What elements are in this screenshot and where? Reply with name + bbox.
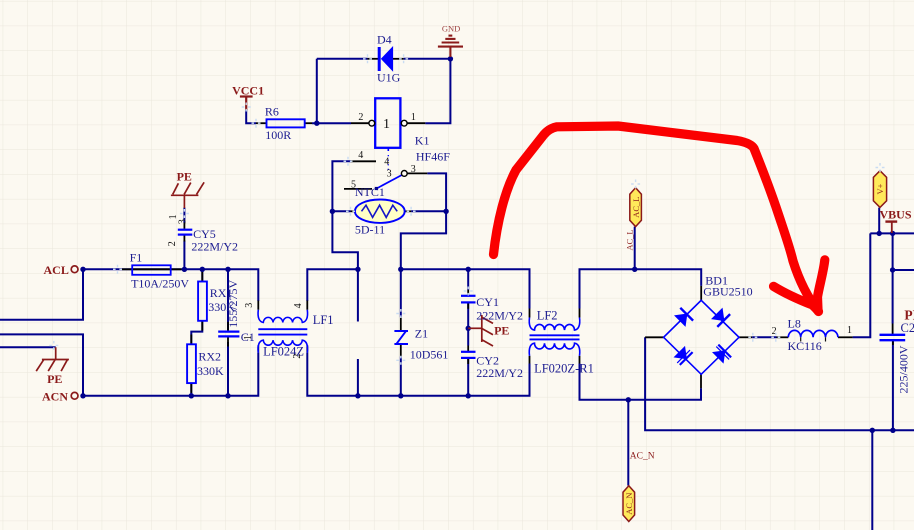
svg-text:GND: GND <box>442 23 460 33</box>
capacitor CY1 <box>461 295 523 323</box>
net flag AC_L <box>630 188 642 227</box>
svg-text:3: 3 <box>387 168 392 179</box>
pin LF1 1 <box>257 345 259 353</box>
svg-text:ACN: ACN <box>42 390 68 404</box>
pin R6 left <box>256 122 267 124</box>
wire ACN entry from left edge <box>0 334 83 395</box>
wire RX1 top drop <box>201 269 203 281</box>
svg-text:NTC1: NTC1 <box>355 185 385 199</box>
svg-text:LF2: LF2 <box>537 309 558 323</box>
wire NTC right node down jog to rail <box>401 211 446 269</box>
wire CY2 bottom to rail <box>467 358 469 396</box>
resistor RX1 <box>198 282 235 321</box>
svg-text:PF: PF <box>904 308 914 323</box>
pin LF1 2 <box>306 345 308 353</box>
svg-text:C2: C2 <box>901 321 914 335</box>
pin Z1 top <box>400 317 402 330</box>
svg-text:5D-11: 5D-11 <box>355 223 385 237</box>
svg-text:KC116: KC116 <box>788 339 822 353</box>
capacitor CY2 <box>461 352 523 380</box>
pin LF2 right bottom <box>579 356 581 364</box>
wire CY5 drop <box>183 241 185 270</box>
pin CY1 top <box>467 290 469 296</box>
common mode choke LF2 LF020Z-R1 <box>529 309 594 376</box>
pin L8 2 <box>777 336 789 338</box>
svg-text:4: 4 <box>384 157 389 168</box>
wire NTC left node down to top rail <box>332 211 358 269</box>
svg-text:330K: 330K <box>197 364 224 378</box>
pin CY1 bottom <box>467 303 469 309</box>
svg-text:1: 1 <box>847 325 852 336</box>
svg-text:HF46F: HF46F <box>416 149 450 163</box>
pin LF1 4 <box>306 301 308 310</box>
svg-text:VCC1: VCC1 <box>232 83 264 97</box>
pin RX1 top <box>201 272 203 282</box>
svg-text:10D561: 10D561 <box>410 348 449 362</box>
wire AC_N flag drop <box>627 400 629 486</box>
pin BD1 right <box>739 336 752 338</box>
svg-text:F1: F1 <box>130 251 143 265</box>
pin CY2 top <box>467 346 469 352</box>
pin LF2 left top <box>529 309 531 318</box>
svg-text:3: 3 <box>177 219 188 224</box>
pin LF2 left bottom <box>529 356 531 364</box>
wire stub below rail at x357.9 <box>357 269 359 321</box>
svg-text:2: 2 <box>292 354 303 359</box>
wire VBUS branch right at y270 <box>893 269 914 271</box>
pin NTC1 right <box>400 210 412 212</box>
svg-text:U1G: U1G <box>377 70 401 84</box>
svg-text:155/275V: 155/275V <box>226 279 240 327</box>
wire AC_L flag drop <box>634 227 636 270</box>
svg-text:ACL: ACL <box>44 263 69 277</box>
wire NTC left pin stub <box>332 210 350 212</box>
wire bottom rail LF1 pin2 to LF2 <box>307 353 529 396</box>
wire V+ flag drop <box>878 208 880 234</box>
pin CY2 bottom <box>467 358 469 364</box>
wire CY1 CY2 vertical chain <box>467 269 469 290</box>
capacitor C2 <box>880 321 914 393</box>
wire NTC right pin to right node <box>411 210 446 212</box>
pin C1 top <box>227 322 229 331</box>
pin D4 cathode <box>393 58 404 60</box>
svg-text:PE: PE <box>47 372 62 386</box>
svg-text:AC_N: AC_N <box>630 451 655 461</box>
wire D4 cathode to GND node <box>404 58 451 60</box>
wire ACL top rail to LF1 pin3 <box>83 269 258 301</box>
svg-text:T10A/250V: T10A/250V <box>131 276 189 290</box>
wire DC minus stub down at x872.3 <box>871 430 873 530</box>
power port GND <box>438 36 463 57</box>
wire C1 top drop <box>227 269 229 330</box>
wire R6 to K1 pin2 with branch node <box>312 122 351 124</box>
wire rail NTC node to CY1 to LF2 <box>401 269 530 308</box>
pin RX2 top <box>190 335 192 345</box>
wire stub up from rail at x357.9 <box>357 359 359 396</box>
wire BD1 right to L8 <box>752 336 776 338</box>
power port VCC1 <box>240 97 253 111</box>
resistor RX2 <box>187 344 224 383</box>
pin K1 coil 1 <box>407 122 425 124</box>
pin RX1 bottom <box>201 321 203 331</box>
power port VBUS <box>880 207 912 233</box>
svg-text:1: 1 <box>411 112 416 123</box>
common mode choke LF1 LF024Z <box>243 303 334 359</box>
svg-text:1: 1 <box>168 214 179 219</box>
svg-text:222M/Y2: 222M/Y2 <box>191 240 238 254</box>
svg-text:AC_L: AC_L <box>631 197 641 218</box>
pin F1 through line <box>122 268 182 270</box>
net flag AC_N <box>623 486 635 522</box>
earth PE mid at CY1 CY2 <box>468 315 493 346</box>
pin K1 contact 3 <box>407 172 427 174</box>
pin NTC1 left <box>351 210 364 212</box>
svg-text:V+: V+ <box>875 183 885 194</box>
svg-text:AC_L: AC_L <box>624 229 634 250</box>
pin L8 1 <box>838 336 853 338</box>
wire LF1 pin4 up to rail segment <box>307 269 358 301</box>
svg-text:LF020Z-R1: LF020Z-R1 <box>534 362 594 376</box>
wire ACN bottom rail to LF1 pin1 <box>83 353 258 396</box>
svg-text:AC_N: AC_N <box>624 493 634 515</box>
pin BD1 left <box>645 336 664 338</box>
wire D4 anode <box>317 58 368 60</box>
wire Z1 bottom to rail <box>400 357 402 396</box>
annotation red arrow right barb <box>818 260 825 310</box>
svg-text:1: 1 <box>383 117 390 132</box>
svg-text:RX2: RX2 <box>198 350 221 364</box>
wire L8 right to VBUS corner <box>853 233 871 337</box>
wire C1 bottom to rail <box>227 342 229 396</box>
varistor Z1 10D561 <box>394 326 448 361</box>
annotation red arrow left barb <box>774 286 819 310</box>
net flag V+ <box>873 171 886 208</box>
wire CY1 bottom to mid node <box>467 303 469 346</box>
port ACN <box>42 390 78 404</box>
pin BD1 bottom <box>700 374 702 388</box>
relay coil K1 <box>358 98 450 163</box>
pin Z1 bottom <box>400 344 402 356</box>
svg-text:4: 4 <box>293 303 304 308</box>
annotation red arrow curve <box>494 126 819 312</box>
pin RX2 bottom <box>190 383 192 393</box>
pin hotspot markers <box>49 54 884 365</box>
wire C2 bottom to minus rail <box>892 340 894 430</box>
relay K1 contact armature <box>351 148 416 191</box>
wire ACL down to left edge exit <box>0 269 83 320</box>
earth PE bottom left <box>36 347 69 371</box>
wire PE entry from left edge <box>0 346 56 348</box>
wire VBUS down to C2 top <box>892 233 894 323</box>
pin K1 contact 5 <box>344 188 372 190</box>
port ACL <box>44 263 79 277</box>
svg-text:D4: D4 <box>377 32 392 46</box>
bridge rectifier BD1 GBU2510 <box>664 274 753 375</box>
svg-text:GBU2510: GBU2510 <box>703 285 752 299</box>
wire VCC1 to R6 <box>246 110 256 124</box>
pin C1 bottom <box>227 337 229 347</box>
pin K1 contact 4 <box>351 160 376 162</box>
pin CY5 bottom <box>183 235 185 241</box>
wire LF2 right bottom pin to AC_N row <box>580 364 702 400</box>
wire PE top to CY5 <box>183 208 185 223</box>
svg-text:222M/Y2: 222M/Y2 <box>476 366 523 380</box>
capacitor CY5 <box>167 214 238 253</box>
pin C2 top <box>892 324 894 335</box>
svg-text:VBUS: VBUS <box>880 207 912 221</box>
wire LF2 right top pin to BD1 top <box>580 269 702 308</box>
svg-text:3: 3 <box>244 303 255 308</box>
svg-text:2: 2 <box>358 112 363 123</box>
wire BD1 left pin down to DC minus rail <box>645 337 914 430</box>
fuse F1 <box>130 251 190 291</box>
svg-text:CY1: CY1 <box>476 295 499 309</box>
diode D4 U1G <box>377 32 401 84</box>
svg-text:PE: PE <box>494 324 509 338</box>
earth PE top at CY5 <box>171 182 204 208</box>
svg-text:PE: PE <box>177 169 192 183</box>
wire VBUS top rail <box>870 232 914 234</box>
capacitor C1 <box>218 279 255 343</box>
svg-text:Z1: Z1 <box>415 326 428 340</box>
pin D4 anode <box>368 58 380 60</box>
svg-text:3: 3 <box>411 164 416 175</box>
svg-text:4: 4 <box>358 150 363 161</box>
svg-text:2: 2 <box>167 241 178 246</box>
wire Z1 top drop <box>400 269 402 317</box>
pin K1 coil 2 <box>351 122 369 124</box>
svg-text:100R: 100R <box>265 128 291 142</box>
wire K1 contact pin4 to NTC left node <box>332 161 351 211</box>
inductor L8 KC116 <box>772 317 852 353</box>
pin C2 bottom <box>892 340 894 345</box>
wire RX2 bottom to rail <box>190 383 192 396</box>
resistor R6 <box>265 105 305 142</box>
pin BD1 top <box>700 286 702 300</box>
svg-text:LF1: LF1 <box>313 313 334 327</box>
wire GND node down to K1 pin1 <box>425 59 450 123</box>
svg-text:R6: R6 <box>265 105 279 119</box>
pin LF1 3 <box>257 301 259 310</box>
pin R6 right <box>305 122 312 124</box>
svg-text:222M/Y2: 222M/Y2 <box>476 309 523 323</box>
svg-text:1: 1 <box>243 335 254 340</box>
svg-text:225/400V: 225/400V <box>897 345 911 393</box>
wire RX1 to RX2 jog <box>191 321 202 345</box>
thermistor NTC1 5D-11 <box>355 185 405 236</box>
pin CY5 top <box>183 223 185 229</box>
wire K1 contact pin3 to NTC right node <box>427 173 446 211</box>
svg-text:K1: K1 <box>415 133 430 147</box>
pin LF2 right top <box>579 309 581 318</box>
svg-text:L8: L8 <box>788 317 801 331</box>
wire node R6 up to D4 row <box>316 59 318 123</box>
